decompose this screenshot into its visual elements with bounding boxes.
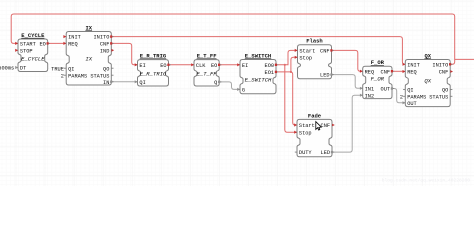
svg-text:INIT: INIT [407, 62, 420, 68]
svg-text:DT: DT [20, 66, 26, 72]
function block IX (hardware input) [63, 24, 114, 85]
wire Flash.CNF to F_OR.REQ [332, 50, 363, 71]
svg-text:blog.csdn.net/qq_weixin_402282: blog.csdn.net/qq_weixin_40228200 [382, 178, 470, 184]
svg-text:STATUS: STATUS [429, 94, 448, 100]
svg-text:IN2: IN2 [365, 93, 375, 99]
svg-text:E_SWITCH: E_SWITCH [245, 52, 271, 59]
wire QX.INITO feedback loop to E_CYCLE.START [11, 14, 455, 64]
program block Flash [295, 38, 334, 79]
svg-text:E_CYCLE: E_CYCLE [21, 55, 45, 62]
function block E_T_FF (toggle flip-flop) [191, 53, 221, 87]
svg-text:F_OR: F_OR [371, 75, 385, 82]
svg-text:E_T_FF: E_T_FF [197, 70, 218, 77]
wire E_SWITCH.EO1 to Flash.Stop [276, 57, 298, 72]
svg-text:CNF: CNF [321, 123, 331, 129]
svg-text:QX: QX [424, 52, 431, 59]
program block Fade [294, 112, 335, 156]
function block E_R_TRIG (rising edge trigger) [135, 53, 171, 87]
svg-text:Q: Q [214, 80, 217, 86]
svg-text:Fade: Fade [308, 112, 322, 119]
svg-text:Stop: Stop [299, 130, 312, 136]
svg-text:EI: EI [242, 63, 248, 69]
svg-text:INITO: INITO [93, 35, 109, 41]
wire E_T_FF.EO to E_SWITCH.EI [219, 64, 240, 66]
svg-text:OUT: OUT [407, 101, 417, 107]
svg-text:CNF: CNF [320, 49, 330, 55]
svg-text:E_SWITCH: E_SWITCH [245, 77, 272, 84]
svg-text:EO: EO [39, 42, 45, 48]
wire E_T_FF.Q to E_SWITCH.G [219, 82, 240, 90]
svg-text:DUTY: DUTY [299, 150, 313, 156]
svg-text:Start: Start [299, 123, 315, 129]
svg-text:INIT: INIT [68, 35, 81, 41]
svg-text:EO: EO [211, 63, 217, 69]
wire E_SWITCH.EO1 branch to Fade.Start [290, 72, 297, 125]
wire IX.IN to E_R_TRIG.QI [111, 81, 137, 83]
svg-text:CNF: CNF [100, 42, 110, 48]
function block F_OR (logical OR) [360, 59, 394, 99]
svg-text:INITO: INITO [432, 62, 448, 68]
svg-text:QI: QI [407, 88, 413, 94]
svg-text:STOP: STOP [20, 48, 33, 54]
svg-text:QX: QX [424, 77, 431, 84]
svg-text:EI: EI [139, 63, 145, 69]
wire F_OR.CNF to QX.REQ [392, 70, 405, 72]
wire IX.CNF to E_R_TRIG.EI [111, 43, 137, 64]
svg-text:Stop: Stop [299, 55, 312, 61]
wire E_SWITCH.EO0 to Flash.Start [276, 50, 298, 64]
wire Flash.LED to F_OR.IN1 [332, 75, 363, 89]
wire IX.INITO to QX.INIT [111, 37, 405, 65]
svg-text:LED: LED [321, 150, 331, 156]
function block QX (hardware output) [403, 52, 453, 107]
svg-text:PARAMS: PARAMS [407, 94, 426, 100]
svg-text:E_R_TRIG: E_R_TRIG [140, 70, 167, 77]
svg-text:E_CYCLE: E_CYCLE [21, 32, 45, 39]
function block E_SWITCH (event switch) [237, 52, 278, 93]
svg-text:IX: IX [85, 55, 92, 62]
svg-text:REQ: REQ [407, 70, 417, 76]
svg-text:IN: IN [103, 80, 109, 86]
svg-text:QO: QO [103, 66, 109, 72]
svg-text:G: G [242, 88, 245, 94]
wire E_R_TRIG.EO to E_T_FF.CLK [169, 64, 195, 66]
wire F_OR.OUT to QX.OUT [392, 89, 405, 103]
function block E_CYCLE (cycle generator) [15, 32, 50, 72]
wire E_CYCLE.EO to IX.REQ [48, 42, 66, 44]
wire E_SWITCH.EO0 branch to Fade.Stop [285, 65, 297, 132]
svg-text:OUT: OUT [381, 87, 391, 93]
wire QX.INITO branch exiting right edge [455, 58, 474, 60]
svg-text:IN1: IN1 [365, 86, 375, 92]
svg-text:REQ: REQ [68, 42, 78, 48]
svg-text:IND: IND [100, 48, 110, 54]
svg-text:QI: QI [68, 66, 74, 72]
svg-text:T#500ms: T#500ms [0, 66, 14, 72]
svg-text:CNF: CNF [439, 70, 449, 76]
svg-text:START: START [20, 42, 36, 48]
svg-text:IX: IX [85, 24, 92, 31]
svg-text:2: 2 [400, 94, 403, 100]
mouse cursor pointer [316, 122, 322, 131]
svg-text:Start: Start [299, 49, 315, 55]
svg-text:E_T_FF: E_T_FF [197, 53, 217, 60]
svg-text:STATUS: STATUS [90, 73, 109, 79]
svg-text:PARAMS: PARAMS [68, 73, 87, 79]
wire Fade.LED to F_OR.IN2 [332, 95, 363, 152]
svg-text:F_OR: F_OR [371, 59, 385, 66]
svg-text:QI: QI [139, 80, 145, 86]
svg-text:CLK: CLK [196, 63, 206, 69]
svg-text:2: 2 [61, 73, 64, 79]
svg-text:LED: LED [320, 73, 330, 79]
svg-text:E_R_TRIG: E_R_TRIG [140, 53, 167, 60]
svg-text:Flash: Flash [306, 38, 323, 45]
svg-text:EO0: EO0 [265, 63, 275, 69]
svg-text:EO1: EO1 [265, 70, 275, 76]
svg-text:TRUE: TRUE [51, 66, 64, 72]
svg-text:QO: QO [442, 88, 448, 94]
svg-text:EO: EO [160, 63, 166, 69]
